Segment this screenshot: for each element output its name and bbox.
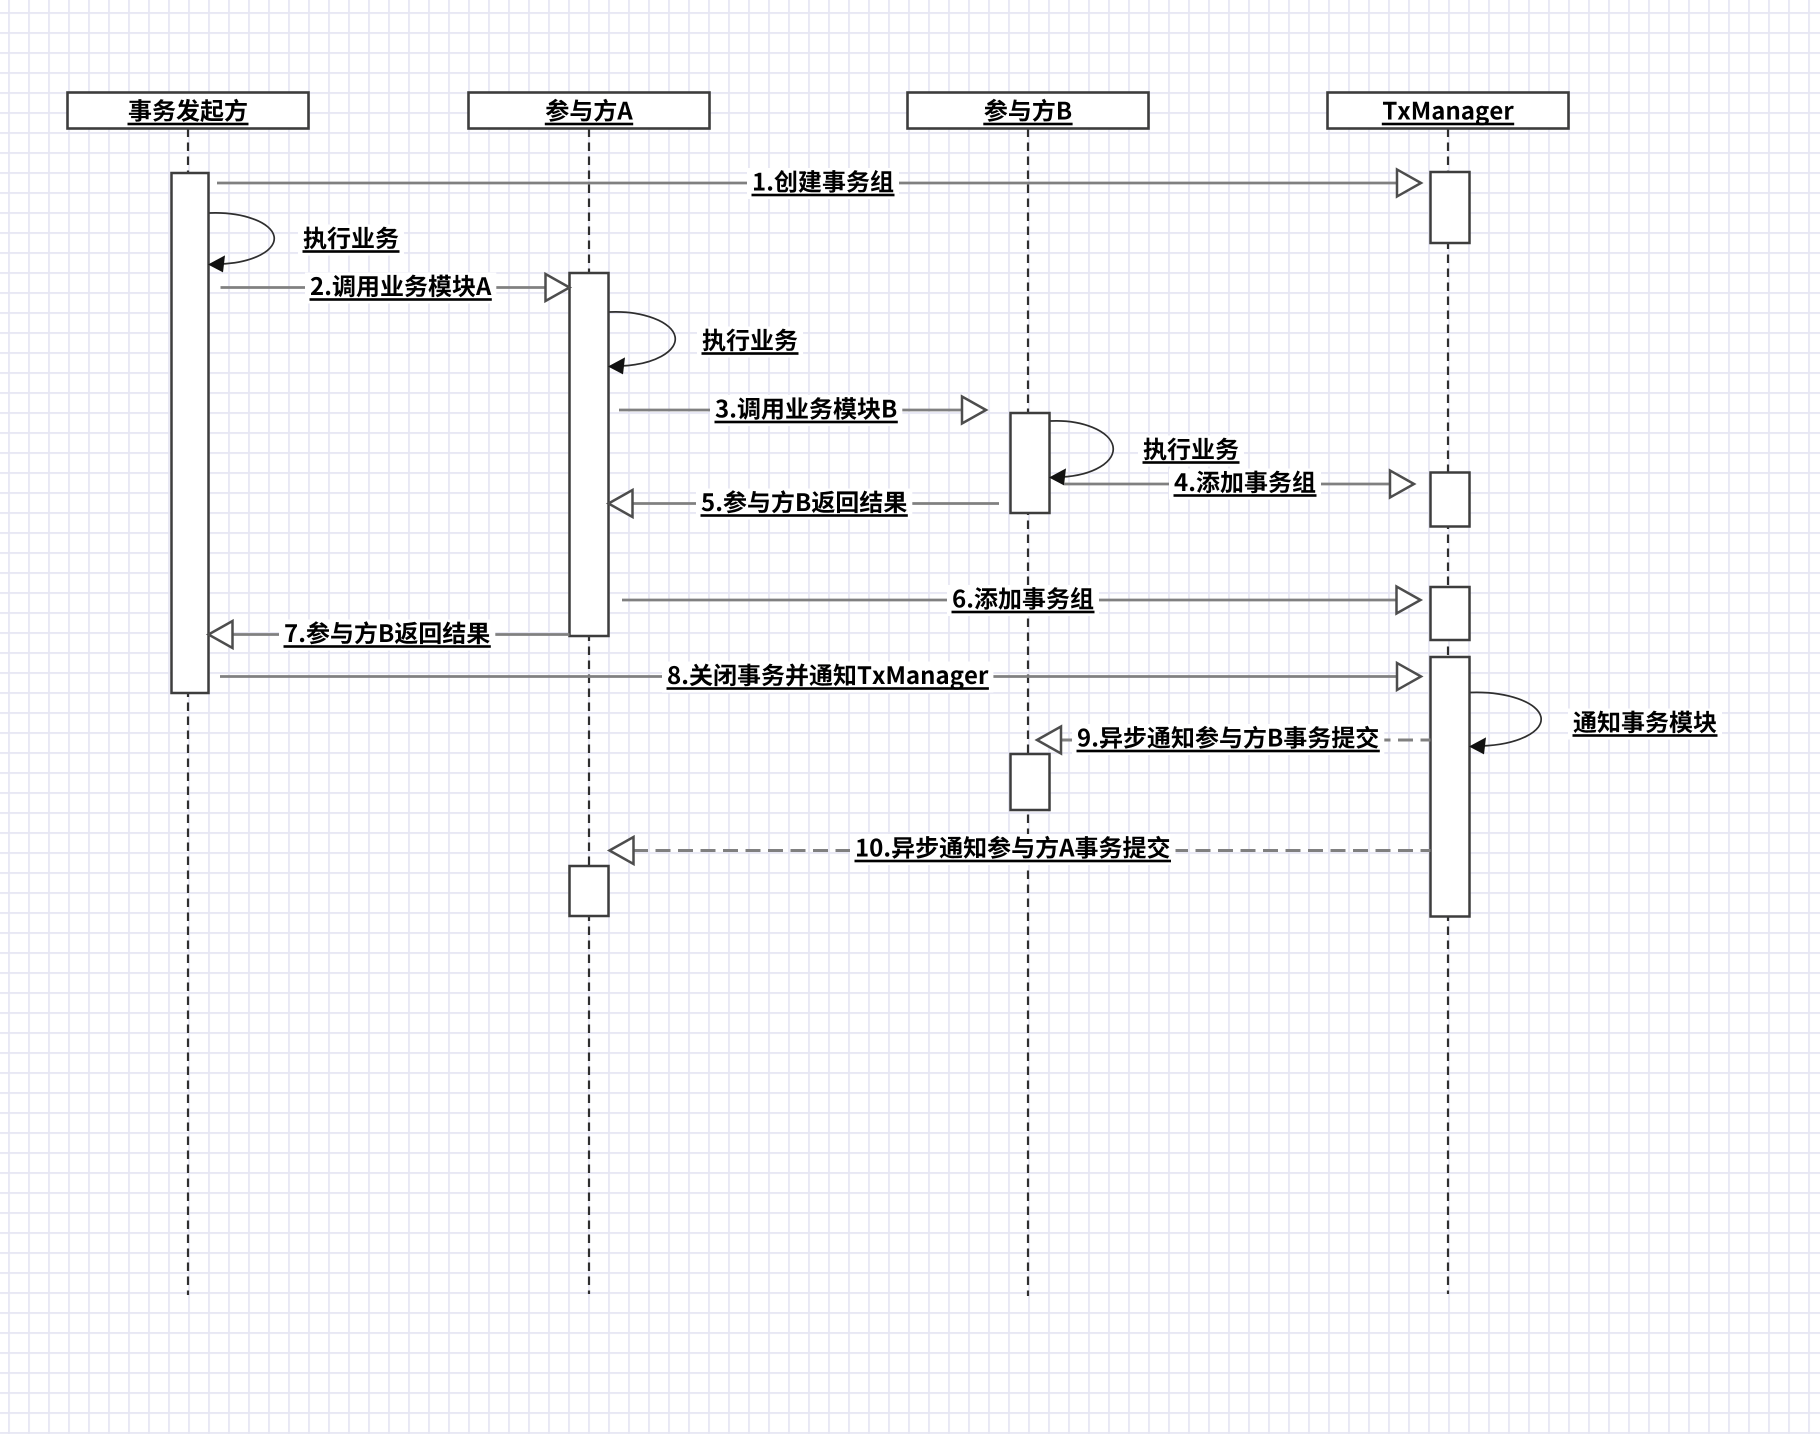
message 7 label 7.参与方B返回结果 [279, 620, 495, 651]
message 7 arrowhead [209, 621, 233, 648]
activation TxManager 2 [1431, 473, 1470, 527]
activation 参与方A commit [570, 866, 609, 916]
message 7 line [232, 633, 570, 636]
label 执行业务 (参与方A) [697, 327, 803, 358]
lifeline 参与方B [1027, 129, 1029, 1297]
message 1 label 1.创建事务组 [747, 168, 899, 199]
message 10 label 10.异步通知参与方A事务提交 [850, 834, 1176, 865]
label 通知事务模块 (TxManager) [1568, 709, 1722, 740]
message 8 label 8.关闭事务并通知TxManager [662, 662, 993, 693]
message 6 label 6.添加事务组 [947, 585, 1099, 616]
message 5 arrowhead [609, 490, 633, 517]
message 5 label 5.参与方B返回结果 [696, 489, 912, 520]
actor 事务发起方 [68, 93, 309, 129]
self message 执行业务 on 事务发起方 [208, 213, 274, 273]
lifeline TxManager [1447, 129, 1449, 1295]
lifeline 事务发起方 [187, 129, 189, 1296]
label 执行业务 (事务发起方) [298, 225, 404, 256]
message 8 arrowhead [1397, 663, 1421, 690]
activation TxManager 3 [1431, 587, 1470, 640]
activation TxManager 4 [1431, 657, 1470, 917]
self message 执行业务 on 参与方B [1049, 421, 1113, 486]
message 1 arrowhead [1397, 170, 1421, 197]
message 4 label 4.添加事务组 [1169, 469, 1321, 500]
message 6 line [622, 599, 1396, 602]
actor TxManager [1328, 93, 1569, 129]
self message 执行业务 on 参与方A [608, 312, 675, 375]
message 3 line [619, 409, 962, 412]
message 9 dashed line [1061, 739, 1431, 742]
activation 参与方B main [1011, 413, 1050, 513]
message 2 arrowhead [546, 274, 570, 301]
message 2 label 2.调用业务模块A [305, 273, 496, 304]
message 8 line [220, 675, 1397, 678]
message 2 line [221, 286, 546, 289]
message 4 line [1064, 483, 1390, 486]
activation 参与方B commit [1011, 754, 1050, 810]
message 3 label 3.调用业务模块B [710, 395, 902, 426]
message 9 label 9.异步通知参与方B事务提交 [1072, 724, 1384, 755]
activation 参与方A main [570, 273, 609, 636]
message 10 dashed line [633, 849, 1431, 852]
message 4 arrowhead [1390, 471, 1414, 498]
message 5 line [632, 502, 1000, 505]
actor 参与方A [469, 93, 710, 129]
activation TxManager 1 [1431, 172, 1470, 243]
message 3 arrowhead [962, 397, 986, 424]
message 1 line [217, 182, 1397, 185]
self message 通知事务模块 on TxManager [1469, 692, 1541, 754]
message 6 arrowhead [1397, 587, 1421, 614]
activation 事务发起方 [172, 173, 209, 693]
lifeline 参与方A [588, 129, 590, 1295]
actor 参与方B [908, 93, 1149, 129]
message 10 arrowhead [610, 837, 634, 864]
label 执行业务 (参与方B) [1138, 436, 1244, 467]
message 9 arrowhead [1037, 727, 1061, 754]
